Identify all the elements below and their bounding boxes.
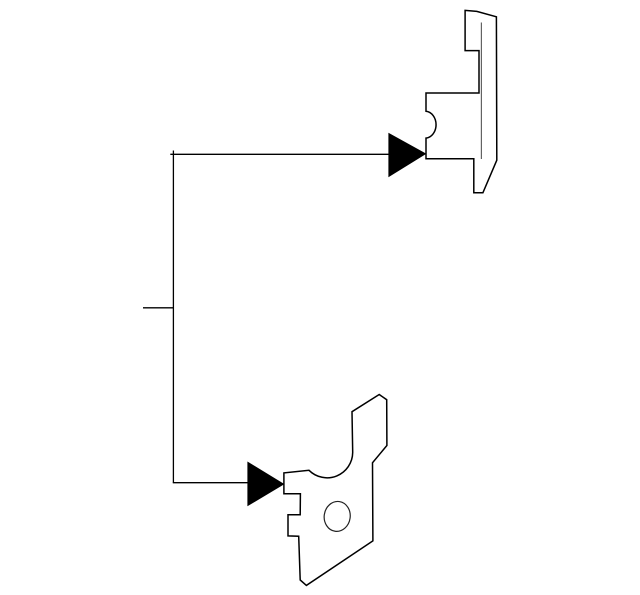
part B bracket outline (bottom)	[284, 395, 387, 586]
wire vertical callout line	[172, 151, 174, 483]
part A inner edge line	[480, 23, 482, 160]
wire top horizontal leader	[170, 153, 389, 155]
arrow to bottom part	[248, 462, 284, 505]
part A bracket outline (top right)	[426, 10, 497, 192]
arrow to top part	[389, 134, 426, 177]
wire bottom horizontal leader	[173, 482, 248, 484]
part B hole	[322, 500, 352, 533]
wire left tick	[143, 307, 173, 309]
